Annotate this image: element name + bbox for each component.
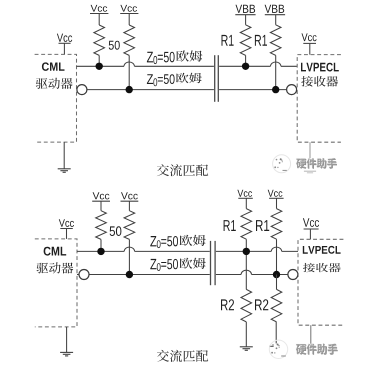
ground below CML box (bottom) [60, 351, 73, 353]
power Vcc of 50-ohm resistor 2 (bottom) [121, 192, 128, 199]
junction dot top trace R1#1 (bottom) [243, 248, 250, 255]
LVPECL input port circle [287, 85, 297, 95]
ground below CML box [58, 168, 71, 170]
label CML (bottom) [44, 247, 51, 256]
CML driver box (bottom) [35, 239, 77, 327]
power Vcc of R1 #1 (bottom) [237, 190, 243, 197]
power Vcc above LVPECL box [302, 33, 308, 41]
wire top trace [77, 65, 125, 67]
junction dot bottom trace resistor2 (bottom) [126, 271, 133, 278]
resistor R2 #1 (bottom) [241, 289, 252, 322]
crossover hop top trace left (bottom) [124, 247, 134, 251]
label 接收器 (bottom) [303, 263, 315, 272]
label R1 #1 (bottom) [224, 220, 230, 231]
wire R1#2 down to bottom trace (bottom) [276, 239, 278, 274]
resistor 50 ohm #1 (bottom) [96, 211, 107, 240]
power Vcc above LVPECL box (bottom) [303, 218, 310, 227]
CML output port circle [77, 85, 87, 95]
watermark logo (bottom) [269, 340, 287, 358]
resistor R2 #2 (bottom) [271, 289, 282, 322]
label Z0=50欧姆 row2 (bottom) [150, 259, 156, 269]
label 驱动器 (bottom) [37, 263, 49, 274]
power Vcc of R1 #2 (bottom) [268, 190, 274, 197]
wire R1#1 to top trace [245, 55, 247, 66]
caption 交流匹配 (bottom) [157, 350, 169, 362]
label 50 (bottom) [110, 226, 115, 236]
resistor R1 #1 (bottom) [241, 209, 252, 240]
label Z0=50欧姆 row1 [147, 52, 153, 63]
wire R2#2 from bottom trace [276, 275, 278, 290]
wire LVPECL box to hidden ground (bottom) [310, 325, 312, 344]
resistor 50 ohm #2 (bottom) [124, 211, 135, 240]
wire top trace (bottom circuit) [77, 250, 124, 252]
resistor 50 ohm #2 [124, 25, 135, 55]
CML output port circle (bottom) [79, 270, 89, 280]
ground fragment below R2#2 [269, 345, 273, 347]
power VBB of R1 #1 [236, 5, 243, 13]
power Vcc of 50-ohm resistor 2 [120, 5, 127, 12]
crossover hop top trace right (bottom) [271, 247, 281, 251]
watermark logo [273, 155, 291, 173]
CML driver box [35, 54, 77, 142]
label 接收器 [301, 76, 313, 87]
label R1 #1 [222, 35, 228, 46]
power VBB of R1 #2 [265, 5, 272, 13]
resistor R1 #2 [270, 25, 281, 56]
resistor 50 ohm #1 [94, 25, 105, 55]
junction dot bottom trace R1#2 (bottom) [273, 271, 280, 278]
junction dot top trace resistor1 [96, 63, 103, 70]
resistor R1 #2 (bottom) [271, 209, 282, 240]
power Vcc of 50-ohm resistor 1 [91, 5, 98, 12]
label R2 #2 (bottom) [255, 299, 262, 310]
label Z0=50欧姆 row1 (bottom) [150, 236, 156, 246]
watermark text 硬件助手 (bottom) [297, 345, 307, 355]
ground below R2#1 [240, 346, 253, 348]
label R2 #1 (bottom) [221, 299, 228, 310]
coupling capacitor plates [214, 55, 216, 102]
label CML [42, 62, 49, 71]
wire R2#2 to hidden ground [275, 322, 277, 344]
label LVPECL [301, 63, 306, 72]
label 50 [109, 41, 114, 50]
label LVPECL (bottom) [303, 246, 308, 254]
junction dot bottom trace R1#2 [272, 86, 279, 93]
wire R2#1 to ground [245, 322, 247, 347]
wire bottom trace [87, 89, 214, 91]
wire R1#2 down to bottom trace [275, 55, 277, 89]
junction dot top trace resistor1 (bottom) [97, 248, 104, 255]
watermark text 硬件助手 [297, 159, 307, 169]
wire CML box to ground [63, 142, 65, 169]
label R1 #2 (bottom) [256, 220, 263, 231]
caption 交流匹配 [157, 164, 169, 176]
resistor R1 #1 [240, 25, 251, 56]
faded ground below LVPECL box [304, 170, 316, 172]
power Vcc of 50-ohm resistor 1 (bottom) [93, 192, 100, 199]
wire CML box to ground (bottom) [66, 327, 68, 352]
crossover hop top trace left [124, 62, 134, 66]
LVPECL input port circle (bottom) [288, 270, 298, 280]
crossover hop bottom trace (bottom) [241, 270, 251, 274]
LVPECL receiver box [297, 55, 341, 143]
label 驱动器 [36, 78, 48, 89]
wire resistor1 to top trace [98, 55, 100, 66]
wire resistor1 to top trace (bottom) [100, 239, 102, 251]
faded wire LVPECL box to ground [309, 142, 311, 158]
power Vcc above CML box [57, 34, 63, 42]
wire resistor2 down to bottom trace (bottom) [128, 239, 130, 274]
wire resistor2 down to bottom trace [128, 55, 130, 89]
junction dot bottom trace resistor2 [126, 86, 133, 93]
power Vcc above CML box (bottom) [59, 219, 65, 227]
junction dot top trace R1#1 [242, 63, 249, 70]
wire R1#1 through bottom trace to R2#1 [245, 239, 247, 289]
crossover hop top trace right [271, 62, 281, 66]
LVPECL receiver box (bottom) [298, 239, 343, 325]
label Z0=50欧姆 row2 [147, 74, 153, 84]
coupling capacitor plates (bottom) [210, 241, 212, 285]
wire bottom trace (bottom circuit) [77, 274, 79, 276]
label R1 #2 [255, 35, 261, 46]
